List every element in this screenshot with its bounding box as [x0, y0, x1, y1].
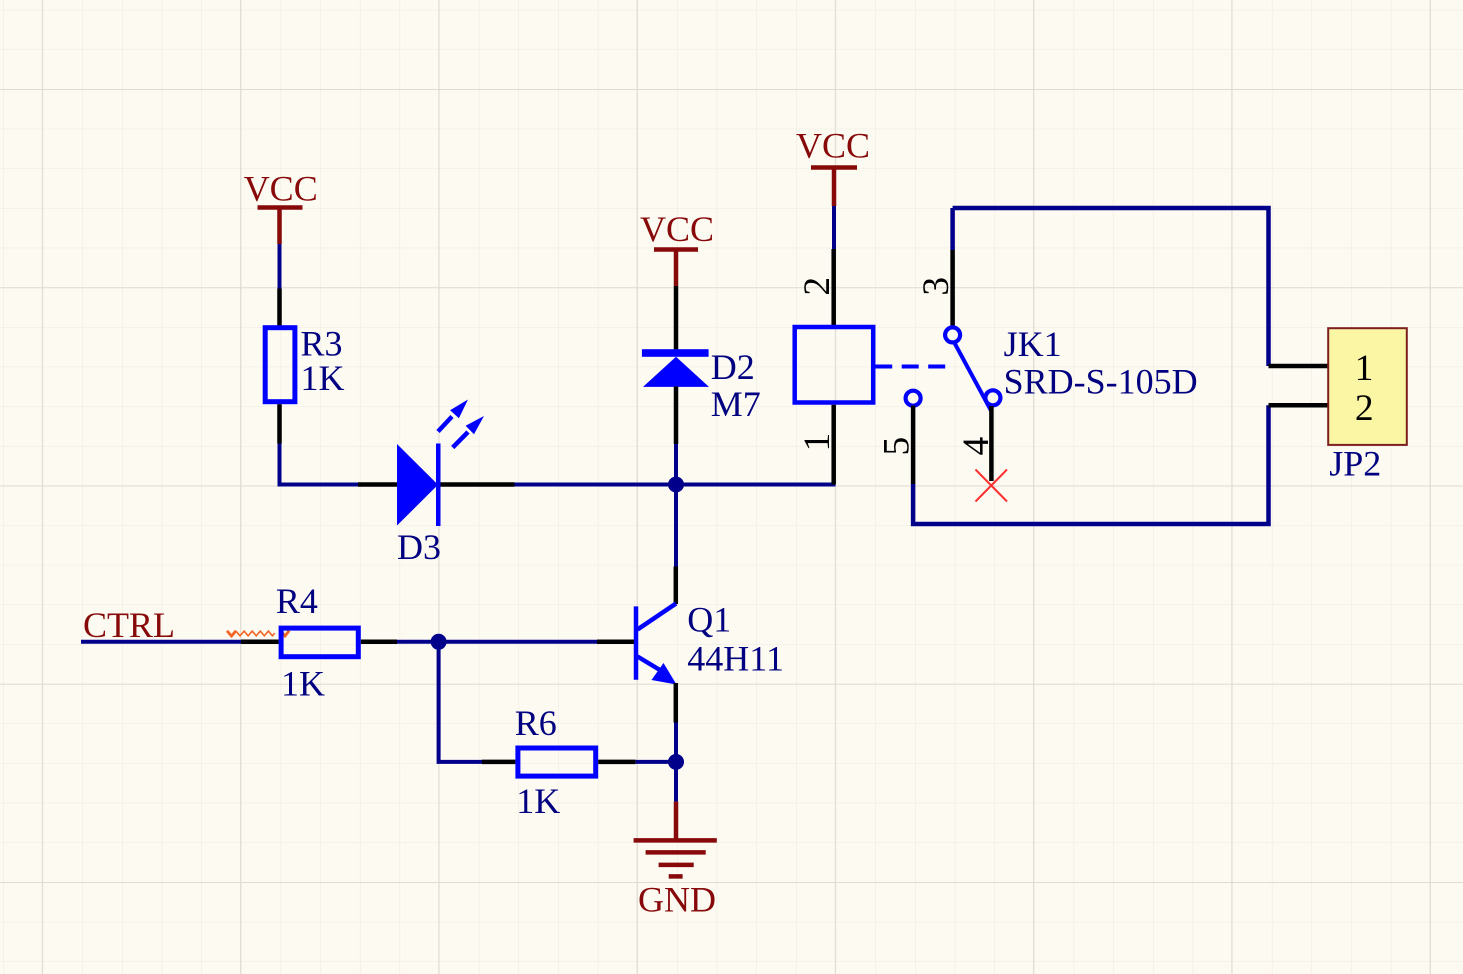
contact circle pin 4	[985, 390, 1000, 405]
wire VCC to R3	[278, 244, 282, 289]
pin JP2 2	[1269, 403, 1328, 408]
relay actuator dashed link	[875, 365, 953, 369]
svg-text:2: 2	[1355, 388, 1374, 429]
svg-text:1: 1	[797, 433, 838, 452]
svg-text:3: 3	[916, 277, 957, 296]
wire R4 to Q1 base	[397, 640, 597, 644]
svg-text:4: 4	[956, 437, 997, 456]
LED D3	[397, 444, 441, 527]
power port VCC (left)	[244, 169, 318, 244]
svg-text:JK1: JK1	[1004, 324, 1062, 364]
svg-text:CTRL: CTRL	[83, 605, 175, 645]
svg-text:VCC: VCC	[640, 209, 714, 249]
svg-text:D3: D3	[397, 527, 441, 567]
pin R3 top	[277, 289, 282, 328]
wire D3 to relay pin1	[515, 483, 836, 487]
pin JP2 1	[1269, 364, 1328, 369]
junction node C	[668, 754, 684, 770]
wire Q1 emitter to GND	[674, 723, 678, 802]
pin R3 bottom	[277, 404, 282, 443]
svg-text:Q1: Q1	[687, 600, 731, 640]
resistor R3	[265, 328, 295, 402]
svg-text:2: 2	[797, 277, 838, 296]
contact circle pin 3	[945, 327, 960, 342]
wire bottom rail to JP2	[913, 405, 1268, 524]
pin JK1 1	[831, 405, 836, 485]
contact circle pin 5	[906, 391, 921, 406]
svg-text:D2: D2	[711, 347, 755, 387]
svg-text:JP2: JP2	[1329, 443, 1381, 483]
svg-text:SRD-S-105D: SRD-S-105D	[1004, 362, 1198, 402]
svg-text:VCC: VCC	[244, 169, 318, 209]
resistor R6	[518, 748, 596, 776]
no-ERC marker X	[976, 470, 1008, 502]
svg-text:1: 1	[1355, 348, 1374, 389]
switch arm	[954, 342, 991, 411]
svg-text:1K: 1K	[301, 358, 345, 398]
power port VCC (right)	[796, 126, 870, 207]
wire CTRL	[81, 640, 241, 644]
wire R3 to D3	[280, 444, 359, 485]
power port VCC (middle)	[640, 209, 714, 286]
svg-text:1K: 1K	[516, 781, 560, 821]
wire D2 to node A	[674, 444, 678, 485]
pin D3 cathode	[441, 482, 515, 487]
wire R6 to node C	[636, 760, 676, 764]
svg-text:44H11: 44H11	[687, 638, 784, 678]
compile marker squiggle	[227, 631, 289, 636]
pin JK1 4	[989, 406, 994, 481]
pin R4 right	[361, 640, 397, 645]
connector JP2 body	[1328, 328, 1407, 445]
diode D2	[642, 349, 709, 387]
pin Q1 emitter	[674, 683, 679, 723]
wire node B down to R6	[439, 642, 482, 762]
pin D2 anode	[674, 387, 679, 445]
svg-text:M7: M7	[711, 384, 761, 424]
svg-text:1K: 1K	[281, 664, 325, 704]
pin R4 left	[241, 640, 279, 645]
pin D2 cathode	[674, 286, 679, 350]
svg-text:R4: R4	[276, 581, 318, 621]
svg-text:VCC: VCC	[796, 126, 870, 166]
ground GND	[634, 802, 717, 877]
wire VCC to relay coil	[832, 206, 836, 249]
pin Q1 base	[597, 640, 634, 645]
wire top rail to JP2	[953, 208, 1269, 366]
wire rail to pin 3	[950, 208, 955, 250]
pin Q1 collector	[674, 567, 679, 605]
pin JK1 2	[831, 249, 836, 325]
junction node B	[431, 634, 447, 650]
pin JK1 3	[950, 250, 955, 327]
junction node A	[668, 477, 684, 493]
pin D3 anode	[358, 482, 398, 487]
pin JK1 5	[911, 406, 916, 485]
svg-text:GND: GND	[638, 880, 716, 920]
wire node A to Q1 collector	[674, 485, 678, 567]
relay JK1 coil	[795, 327, 874, 403]
svg-text:5: 5	[877, 437, 918, 456]
pin R6 right	[598, 760, 635, 765]
resistor R4	[281, 628, 358, 657]
transistor Q1	[636, 604, 676, 680]
pin R6 left	[482, 760, 515, 765]
svg-text:R6: R6	[515, 703, 557, 743]
